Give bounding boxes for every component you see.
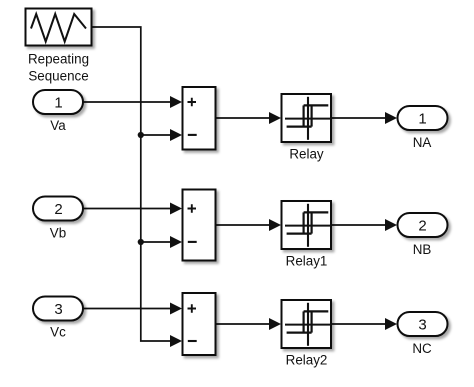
sum block U3 (Add, + -)	[183, 293, 216, 355]
wire Va to Sum1 plus	[83, 101, 170, 103]
svg-text:Relay2: Relay2	[286, 353, 328, 368]
svg-text:2: 2	[418, 217, 426, 234]
svg-text:3: 3	[54, 301, 62, 318]
arrowhead into Relay1	[269, 219, 281, 231]
svg-text:NC: NC	[412, 341, 432, 356]
inport 3 Vc	[33, 297, 83, 321]
outport 1 NA	[398, 106, 448, 130]
wire Relay2 to NC	[331, 323, 385, 325]
sum block U1 (Add, + -)	[183, 87, 216, 150]
svg-text:Relay1: Relay1	[286, 254, 328, 269]
arrowhead into Sum1 minus	[170, 129, 182, 141]
wire Relay to NA	[331, 117, 385, 119]
svg-text:Repeating: Repeating	[28, 52, 89, 67]
Repeating Sequence block	[26, 9, 92, 46]
wire from Repeating Sequence output, right then down the bus	[92, 27, 171, 341]
wire Sum2 to Relay1	[216, 224, 270, 226]
svg-text:2: 2	[54, 201, 62, 218]
svg-text:1: 1	[418, 110, 426, 127]
wire branch to Sum1 minus input	[141, 134, 170, 136]
svg-text:Va: Va	[50, 118, 66, 133]
arrowhead into Sum3 minus	[170, 335, 182, 347]
svg-text:Vb: Vb	[50, 225, 66, 240]
arrowhead into Relay	[269, 112, 281, 124]
svg-text:1: 1	[54, 94, 62, 111]
outport 3 NC	[398, 312, 448, 336]
outport 2 NB	[398, 213, 448, 237]
arrowhead into NB port	[385, 219, 397, 231]
arrowhead into NA port	[385, 112, 397, 124]
sum block U2 (Add, + -)	[183, 190, 216, 261]
arrowhead into Sum2 minus	[170, 236, 182, 248]
arrowhead into Sum2 plus	[170, 203, 182, 215]
wire Sum1 to Relay	[216, 117, 270, 119]
Relay2 block	[282, 300, 332, 348]
svg-text:Vc: Vc	[50, 325, 66, 340]
svg-text:Relay: Relay	[289, 147, 324, 162]
wire Vc to Sum3 plus	[83, 308, 170, 310]
junction dot row1	[138, 132, 144, 138]
junction dot row2	[138, 239, 144, 245]
Relay block	[282, 94, 332, 142]
wire Relay1 to NB	[331, 224, 385, 226]
wire Vb to Sum2 plus	[83, 208, 170, 210]
inport 1 Va	[33, 90, 83, 114]
svg-text:NB: NB	[413, 242, 432, 257]
Relay1 block	[282, 201, 332, 249]
inport 2 Vb	[33, 197, 83, 221]
svg-text:NA: NA	[413, 135, 432, 150]
arrowhead into Relay2	[269, 318, 281, 330]
svg-text:Sequence: Sequence	[28, 69, 88, 84]
arrowhead into Sum3 plus	[170, 303, 182, 315]
wire branch to Sum2 minus input	[141, 241, 170, 243]
arrowhead into Sum1 plus	[170, 96, 182, 108]
svg-text:3: 3	[418, 316, 426, 333]
wire Sum3 to Relay2	[216, 323, 270, 325]
arrowhead into NC port	[385, 318, 397, 330]
